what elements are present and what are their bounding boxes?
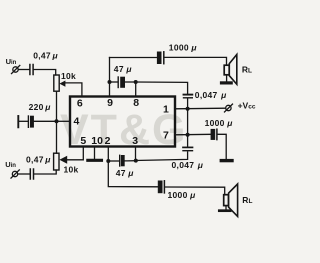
svg-text:2: 2 (105, 135, 111, 147)
speaker LS2 cone (229, 184, 238, 216)
wire (226, 75, 228, 82)
wire (34, 120, 57, 122)
wire to C6 (136, 82, 188, 94)
capacitor C10 1000u (158, 181, 162, 193)
ground under LS2 (219, 209, 230, 212)
wire to ground (218, 134, 227, 158)
junction node pin1/C6 (186, 107, 190, 111)
wire (18, 173, 30, 175)
junction node pin2/C9 (106, 159, 110, 163)
junction node pin4/pots (55, 119, 59, 123)
wire pot chain (56, 91, 58, 153)
svg-text:47μ: 47μ (114, 64, 133, 74)
wiper arrow P2 (59, 156, 67, 164)
capacitor C4 1000u (157, 52, 161, 64)
ground pin 10 (88, 159, 102, 162)
svg-text:1000μ: 1000μ (169, 42, 198, 52)
ground under C7 (221, 159, 232, 162)
wire to C8 (187, 135, 189, 147)
svg-text:3: 3 (132, 135, 138, 147)
wire (225, 206, 227, 210)
capacitor C3 0,47u (29, 169, 31, 179)
svg-text:0,47μ: 0,47μ (26, 154, 51, 164)
input terminal J2 (12, 171, 17, 176)
wire to speaker LS2 (165, 187, 225, 195)
wire (18, 69, 29, 71)
svg-text:47μ: 47μ (116, 168, 135, 178)
svg-text:1000μ: 1000μ (205, 118, 234, 128)
capacitor C8 0,047u (183, 146, 193, 148)
ground under LS1 (222, 81, 232, 84)
capacitor C9 47u (121, 155, 124, 166)
capacitor C5 47u (117, 77, 119, 88)
wire wiper P2 to pin5 (67, 147, 84, 160)
speaker LS2 box (224, 195, 229, 206)
svg-text:5: 5 (80, 135, 86, 147)
capacitor C7 1000u (211, 129, 215, 139)
wire pin 9 riser to output (109, 58, 111, 97)
svg-text:10: 10 (91, 135, 103, 147)
wire (187, 99, 189, 110)
wire wiper P1 to pin6 (65, 83, 82, 97)
potentiometer P1 10k body (54, 75, 59, 91)
op-amp U1 IC body (70, 97, 175, 147)
speaker LS1 cone (229, 55, 237, 85)
speaker LS1 box (224, 65, 229, 75)
wire (125, 81, 136, 83)
input terminal J1 (13, 67, 18, 72)
wire (136, 152, 188, 161)
wire output top (110, 57, 158, 59)
capacitor C1 0,47u (29, 65, 31, 75)
wire (125, 160, 136, 162)
terminal +Vcc (226, 105, 231, 110)
junction node pin8/C5 (134, 80, 138, 84)
wire pin 8 riser (135, 82, 137, 97)
svg-text:9: 9 (107, 97, 113, 109)
wiper arrow P1 (59, 81, 65, 87)
wire pin 4 (57, 120, 71, 122)
wire to speaker (165, 57, 227, 65)
ground bar left of C2 (17, 116, 19, 127)
svg-text:0,047μ: 0,047μ (172, 160, 204, 170)
svg-text:0,47μ: 0,47μ (33, 51, 58, 61)
svg-text:4: 4 (73, 115, 79, 127)
svg-text:10k: 10k (64, 165, 79, 175)
svg-text:0,047μ: 0,047μ (195, 90, 227, 100)
wire (18, 120, 28, 122)
svg-text:8: 8 (133, 97, 139, 109)
junction node pin3/C9 (134, 159, 138, 163)
wire pin 10 to ground (94, 147, 96, 159)
svg-text:7: 7 (163, 129, 169, 141)
wire vertical pin1-pin7 (187, 109, 189, 135)
wire pin 3 riser (135, 147, 137, 161)
junction node pin7/C8 (186, 133, 190, 137)
wire pin 7 (175, 133, 211, 136)
wire (34, 170, 56, 174)
capacitor C2 220u (27, 116, 29, 127)
svg-text:6: 6 (77, 98, 83, 110)
wire (34, 70, 56, 76)
junction node pin9/C5 (108, 80, 112, 84)
wire pin 2 riser and drop (108, 147, 158, 187)
wire (108, 160, 119, 162)
wire 47u top branch (110, 81, 118, 83)
potentiometer P2 10k body (54, 153, 59, 170)
svg-text:1000μ: 1000μ (168, 190, 197, 200)
svg-text:10k: 10k (61, 71, 76, 81)
wire pin 1 to Vcc (175, 107, 226, 110)
svg-text:220μ: 220μ (29, 102, 52, 112)
svg-text:1: 1 (163, 104, 169, 116)
capacitor C6 0,047u (184, 94, 193, 96)
